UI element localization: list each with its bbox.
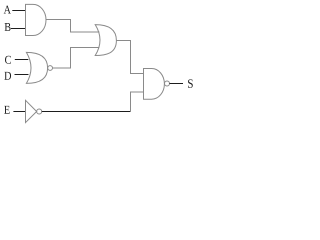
wire B input bbox=[11, 28, 26, 30]
nor-gate U2 inputs C,D bbox=[26, 52, 47, 83]
not-gate U4 triangle bbox=[26, 100, 37, 122]
wire D input bbox=[15, 74, 29, 76]
wire NOR output routed to OR bottom input bbox=[53, 48, 100, 69]
node D label bbox=[4, 72, 11, 80]
wire AND output routed to OR top input bbox=[46, 20, 100, 33]
wire NOT output run bbox=[42, 111, 131, 113]
node A label bbox=[4, 6, 11, 14]
nand-gate U5 output bubble bbox=[165, 81, 170, 86]
and-gate U1 inputs A,B bbox=[26, 4, 47, 35]
wire NOT run up to NAND bottom input bbox=[131, 92, 144, 112]
not-gate U4 output bubble bbox=[37, 109, 42, 114]
node B label bbox=[5, 23, 11, 31]
wire C input bbox=[15, 59, 28, 61]
wire E input bbox=[13, 111, 25, 113]
node S label bbox=[188, 79, 193, 88]
wire S output bbox=[170, 83, 184, 85]
node C label bbox=[5, 56, 11, 64]
or-gate U3 bbox=[95, 25, 116, 56]
nor-gate U2 output bubble bbox=[48, 66, 53, 71]
wire A input bbox=[12, 10, 25, 12]
node E label bbox=[4, 106, 9, 114]
nand-gate U5 bbox=[144, 69, 165, 100]
wire OR output routed to NAND top input bbox=[117, 41, 144, 74]
